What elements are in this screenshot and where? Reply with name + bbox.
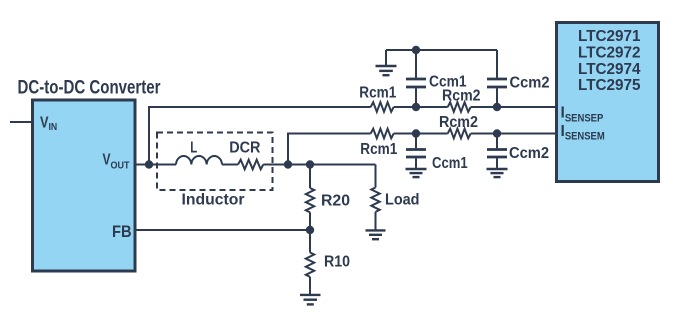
svg-text:Ccm2: Ccm2 (510, 75, 550, 92)
wire vertical VOUT to sense row 2 (288, 134, 371, 165)
svg-text:DCR: DCR (229, 139, 261, 156)
ground top rail (376, 50, 397, 75)
node row2-Ccm2 (493, 129, 501, 137)
svg-text:R10: R10 (324, 253, 350, 270)
svg-text:Load: Load (385, 192, 420, 209)
node VOUT-row1 (145, 160, 153, 168)
pin label VIN (40, 114, 57, 133)
resistor Rcm2 row 2 (439, 114, 478, 138)
wire FB (136, 229, 310, 231)
svg-text:Rcm2: Rcm2 (439, 114, 478, 131)
pin label ISENSEM (561, 123, 605, 143)
resistor Rcm2 row 1 (442, 88, 481, 112)
svg-text:LTC2974: LTC2974 (578, 61, 641, 78)
ground Load (366, 230, 386, 239)
inductor L coil (176, 139, 222, 164)
svg-text:LTC2972: LTC2972 (578, 44, 641, 61)
DC-to-DC Converter block U1 (33, 100, 136, 271)
node FB-R20-R10 (306, 226, 314, 234)
label LTC2971 (578, 28, 641, 45)
label LTC2972 (578, 44, 641, 61)
resistor Load (371, 165, 419, 230)
resistor Rcm1 row 1 (359, 85, 396, 112)
resistor R10 (306, 230, 350, 295)
wire sense row 2 to ISENSEM (471, 133, 557, 135)
node row1-Ccm1 (412, 103, 420, 111)
wire sense row 1 segment (394, 106, 448, 108)
resistor DCR (229, 139, 263, 169)
svg-text:R20: R20 (321, 192, 350, 209)
pin label ISENSEP (561, 105, 604, 125)
ground Ccm1 bottom (406, 169, 427, 177)
node VOUT-R20 (306, 160, 314, 168)
svg-text:LTC2975: LTC2975 (578, 77, 641, 94)
svg-text:Rcm1: Rcm1 (360, 141, 397, 158)
svg-text:Ccm1: Ccm1 (429, 74, 467, 91)
svg-text:Ccm2: Ccm2 (509, 145, 549, 162)
pin label VOUT (103, 152, 130, 172)
svg-text:Rcm1: Rcm1 (359, 85, 396, 102)
svg-text:Ccm1: Ccm1 (432, 155, 468, 172)
title DC-to-DC Converter (18, 78, 161, 99)
wire sense row 2 segment (394, 133, 448, 135)
svg-text:LTC2971: LTC2971 (578, 28, 641, 45)
node row1-Ccm2 (493, 103, 501, 111)
capacitor Ccm1 top (406, 50, 467, 107)
resistor Rcm1 row 2 (360, 129, 397, 158)
LTC297x block U2 (557, 23, 659, 182)
capacitor Ccm2 top (487, 50, 550, 107)
node rail-Ccm1 (412, 46, 420, 54)
wire vertical VOUT to sense row 1 (149, 107, 371, 165)
wire VOUT horizontal (136, 164, 376, 166)
label LTC2974 (578, 61, 641, 78)
ground Ccm2 bottom (487, 169, 508, 177)
svg-text:Inductor: Inductor (182, 191, 245, 208)
node VOUT-row2 (284, 160, 292, 168)
pin label FB (112, 223, 132, 241)
svg-text:FB: FB (112, 223, 132, 241)
wire sense row 1 to ISENSEP (471, 106, 557, 108)
capacitor Ccm2 bottom (487, 134, 549, 168)
svg-text:DC-to-DC Converter: DC-to-DC Converter (18, 78, 161, 99)
svg-text:L: L (190, 139, 197, 156)
resistor R20 (306, 165, 350, 231)
inductor dashed box (157, 133, 273, 209)
node row2-Ccm1 (412, 129, 420, 137)
wire VIN stub (10, 121, 31, 123)
ground R10 (300, 295, 321, 305)
capacitor Ccm1 bottom (406, 134, 468, 173)
label LTC2975 (578, 77, 641, 94)
wire top rail (386, 49, 497, 51)
